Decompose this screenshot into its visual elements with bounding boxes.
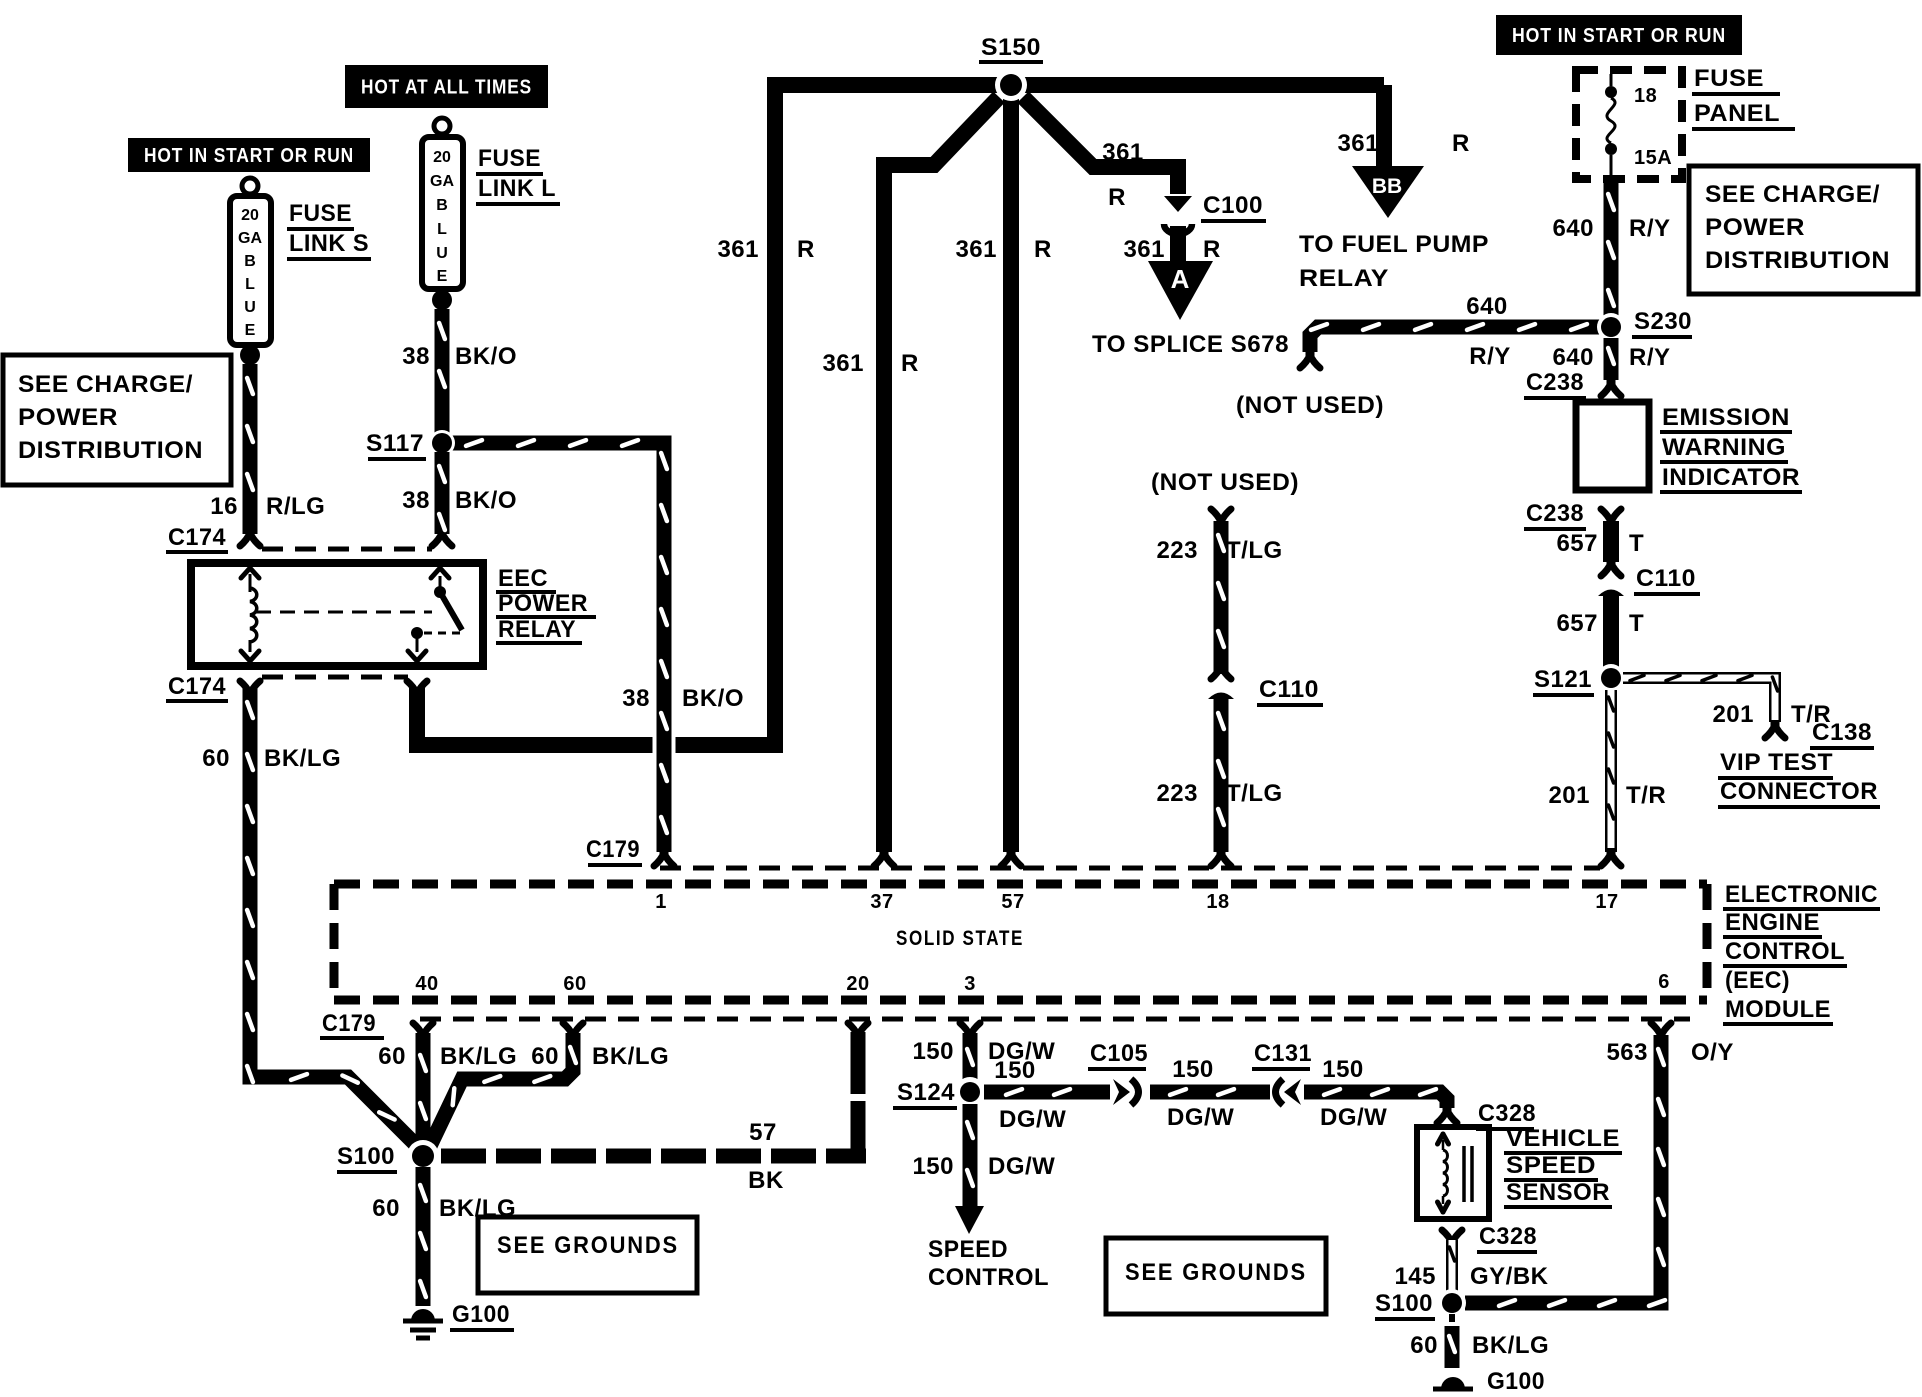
wire 60 BK/LG pin 40 to S100 [420, 1033, 426, 1143]
svg-text:ELECTRONIC: ELECTRONIC [1725, 881, 1878, 908]
connector C174 fork (60 BK/LG side) [240, 681, 260, 699]
label 563 O/Y [1606, 1039, 1733, 1066]
wire 150 DG/W C105 to C131 [1150, 1089, 1270, 1095]
label FUSE LINK L [476, 145, 560, 204]
svg-text:R: R [1108, 184, 1126, 211]
svg-text:T/R: T/R [1626, 782, 1666, 809]
svg-text:R: R [1452, 130, 1470, 157]
svg-text:SEE GROUNDS: SEE GROUNDS [1125, 1259, 1307, 1286]
svg-text:CONTROL: CONTROL [1725, 938, 1845, 965]
label DG/W (C105-C131) [1167, 1104, 1234, 1131]
label NOT USED (center) [1151, 469, 1299, 496]
connector fork (not used, right) [1300, 350, 1320, 368]
label C105 [1088, 1040, 1148, 1069]
label 150 (C131 right) [1322, 1056, 1364, 1083]
wire 361 R top bus (S150 to fuel pump branch) [767, 77, 1384, 93]
svg-text:SEE CHARGE/: SEE CHARGE/ [1705, 181, 1880, 208]
wire 657 T C110 to S121 [1603, 596, 1619, 668]
label pin 20 [846, 973, 869, 995]
svg-text:FUSE: FUSE [289, 200, 352, 227]
wire 60 BK/LG S100 to G100 (right) [1449, 1314, 1455, 1368]
wire 150 DG/W S124 to C105 [984, 1089, 1110, 1095]
wire 223 T/LG to C110 [1218, 521, 1224, 674]
labels 60 BK/LG 60 BK/LG (module) [378, 1043, 669, 1070]
svg-text:BB: BB [1372, 175, 1402, 198]
wire 150 DG/W pin 3 to S124 [967, 1033, 973, 1080]
svg-text:57: 57 [1001, 891, 1024, 913]
wire 640 R/Y S230 to C238 [1608, 338, 1614, 380]
svg-text:C100: C100 [1203, 192, 1263, 219]
svg-text:R: R [1034, 236, 1052, 263]
svg-text:640: 640 [1552, 344, 1594, 371]
label S124 [893, 1079, 957, 1108]
svg-text:O/Y: O/Y [1691, 1039, 1734, 1066]
svg-text:223: 223 [1156, 537, 1198, 564]
svg-text:GA: GA [430, 173, 454, 190]
svg-text:40: 40 [415, 973, 438, 995]
svg-text:BK/O: BK/O [682, 685, 744, 712]
label 201 T/R (C138 branch) [1712, 701, 1831, 728]
wire 145 GY/BK C328 to S100 [1449, 1240, 1454, 1294]
connector C174 fork (fuse link L side) [432, 528, 452, 546]
label 38 BK/O (above S117) [402, 343, 517, 370]
terminal ring above fuse link S [242, 178, 258, 194]
svg-text:R/Y: R/Y [1629, 344, 1671, 371]
svg-text:LINK L: LINK L [478, 175, 556, 202]
svg-text:C328: C328 [1478, 1100, 1536, 1127]
splice S100 junction (left) [407, 1140, 439, 1172]
svg-text:C238: C238 [1526, 369, 1584, 396]
wire 361 R S150 to EEC pin 57 [1003, 92, 1019, 852]
svg-text:BK/LG: BK/LG [592, 1043, 669, 1070]
svg-text:POWER: POWER [1705, 214, 1805, 241]
svg-text:361: 361 [1123, 236, 1165, 263]
svg-text:(NOT USED): (NOT USED) [1236, 392, 1384, 419]
wire 150 DG/W S124 to speed control [967, 1104, 973, 1206]
label C179 (top) [586, 836, 642, 865]
terminal ring above fuse link L [434, 118, 450, 134]
label DG/W (C131 right) [1320, 1104, 1387, 1131]
svg-text:657: 657 [1556, 530, 1598, 557]
wire 361 R S150 to C100 [1023, 97, 1178, 194]
fuse link S body (20 GA BLUE) [230, 196, 271, 345]
fuse 18 / 15A symbol [1605, 74, 1617, 176]
wire 38 BK/O S117 to C174 [439, 452, 445, 534]
connector fork EEC pin 60 [563, 1023, 583, 1041]
label EEC POWER RELAY [496, 565, 596, 643]
svg-text:BK/LG: BK/LG [440, 1043, 517, 1070]
label SOLID STATE [896, 927, 1024, 950]
svg-text:C174: C174 [168, 524, 226, 551]
svg-text:POWER: POWER [18, 404, 118, 431]
svg-text:DG/W: DG/W [1320, 1104, 1387, 1131]
svg-text:DG/W: DG/W [1167, 1104, 1234, 1131]
label 361 R (below C100) [1123, 236, 1220, 263]
connector fork EEC pin 17 [1601, 848, 1621, 866]
emission warning indicator box [1576, 402, 1649, 490]
label C100 [1201, 192, 1266, 221]
connector C328 fork (bottom) [1442, 1230, 1462, 1248]
wire 60 BK/LG relay to S100 [247, 688, 417, 1146]
svg-text:563: 563 [1606, 1039, 1648, 1066]
label C328 (top) [1476, 1100, 1536, 1129]
header box HOT IN START OR RUN (right) [1496, 15, 1742, 55]
svg-text:C105: C105 [1090, 1040, 1148, 1067]
svg-text:60: 60 [1410, 1332, 1438, 1359]
label 657 T (lower) [1556, 610, 1644, 637]
label C328 (bottom) [1477, 1223, 1537, 1252]
box SEE CHARGE/POWER DISTRIBUTION (left) [3, 355, 231, 485]
wire 150 DG/W C131 to C328 [1304, 1089, 1447, 1108]
wire 57 BK S100 to EEC pin 20 [441, 1030, 866, 1163]
svg-text:145: 145 [1394, 1263, 1436, 1290]
svg-text:S100: S100 [337, 1143, 395, 1170]
label S121 [1533, 666, 1594, 695]
svg-text:SEE GROUNDS: SEE GROUNDS [497, 1232, 679, 1259]
connector C110 (right) [1598, 558, 1624, 596]
connector C179 dashed line (bottom) [420, 1017, 1690, 1022]
svg-text:EEC: EEC [498, 565, 548, 592]
svg-text:G100: G100 [1487, 1368, 1545, 1392]
label 361 R (pin 57 wire) [955, 236, 1051, 263]
label 640 (not used branch) [1466, 293, 1508, 320]
label 150 DG/W (speed control) [912, 1153, 1055, 1180]
svg-text:S150: S150 [981, 34, 1041, 61]
svg-text:18: 18 [1634, 85, 1657, 107]
svg-text:150: 150 [912, 1038, 954, 1065]
wire 657 T C238 to C110 [1603, 521, 1619, 562]
svg-text:BK/O: BK/O [455, 487, 517, 514]
svg-text:BK/LG: BK/LG [1472, 1332, 1549, 1359]
svg-text:R: R [1203, 236, 1221, 263]
svg-text:C110: C110 [1259, 676, 1319, 703]
splice dot below fuse link S [240, 345, 260, 365]
svg-text:S117: S117 [366, 430, 424, 457]
svg-text:B: B [244, 253, 256, 270]
svg-text:R/LG: R/LG [266, 493, 325, 520]
svg-text:E: E [437, 268, 448, 285]
connector fork EEC pin 57 [1001, 848, 1021, 866]
label pin 17 [1595, 891, 1618, 913]
label FUSE LINK S [287, 200, 371, 259]
connector fork EEC pin 20 [848, 1023, 868, 1041]
label S150 [979, 34, 1043, 62]
label 18 (fuse) [1634, 85, 1657, 107]
svg-text:38: 38 [402, 487, 430, 514]
fuse link L body (20 GA BLUE) [422, 137, 463, 289]
connector fork EEC pin 40 [413, 1023, 433, 1041]
wire 38 BK/O S117 to EEC pin 1 [452, 440, 667, 852]
label FUSE PANEL [1692, 65, 1795, 129]
svg-text:R/Y: R/Y [1469, 343, 1511, 370]
svg-text:3: 3 [964, 973, 976, 995]
label pin 18 [1206, 891, 1229, 913]
svg-text:VIP TEST: VIP TEST [1720, 749, 1833, 776]
svg-text:38: 38 [402, 343, 430, 370]
label TO FUEL PUMP RELAY [1299, 231, 1489, 292]
svg-text:C179: C179 [586, 836, 640, 863]
connector C238 fork (bottom) [1601, 509, 1621, 527]
label pin 40 [415, 973, 438, 995]
label 38 BK/O (below S117) [402, 487, 517, 514]
svg-text:HOT AT ALL TIMES: HOT AT ALL TIMES [361, 77, 532, 99]
wire 361 R to fuel pump relay (drop) [1376, 85, 1392, 168]
svg-text:T: T [1629, 530, 1644, 557]
svg-text:SOLID STATE: SOLID STATE [896, 927, 1024, 950]
label G100 (right) [1487, 1368, 1545, 1395]
connector fork (not used, center) [1211, 509, 1231, 527]
label 15A (fuse) [1634, 147, 1672, 169]
arrow to speed control [955, 1206, 984, 1234]
svg-text:60: 60 [563, 973, 586, 995]
label 38 BK/O (near EEC pin 1) [622, 685, 744, 712]
connector C238 fork (top) [1601, 378, 1621, 396]
arrow A to splice S678 [1148, 261, 1213, 320]
splice S124 dot [955, 1077, 985, 1107]
splice dot below fuse link L [432, 290, 452, 310]
svg-text:T/LG: T/LG [1226, 780, 1283, 807]
wire 361 R S150 to relay switch (feed) [417, 92, 775, 745]
svg-text:T/LG: T/LG [1226, 537, 1283, 564]
connector fork EEC pin 18 [1211, 848, 1231, 866]
splice S230 dot [1597, 313, 1625, 341]
ground G100 (left) [403, 1309, 443, 1338]
svg-text:361: 361 [822, 350, 864, 377]
vehicle speed sensor box [1417, 1127, 1489, 1219]
splice S100 junction (right) [1438, 1289, 1466, 1317]
connector C174 fork (fuse link S side) [240, 528, 260, 546]
fuse panel dashed box [1576, 70, 1682, 179]
label C174 (top) [166, 524, 228, 552]
label 150 (S124 right) [994, 1057, 1036, 1084]
connector fork EEC pin 1 [654, 848, 674, 866]
splice S117 junction dot [429, 430, 455, 456]
connector C328 fork (top) [1437, 1105, 1457, 1123]
box SEE GROUNDS (left) [478, 1217, 697, 1293]
svg-text:C110: C110 [1636, 565, 1696, 592]
box SEE CHARGE/POWER DISTRIBUTION (right) [1689, 166, 1918, 294]
label NOT USED (right) [1236, 392, 1384, 419]
wire 60 BK/LG S100 to G100 (left) [420, 1167, 426, 1306]
svg-text:EMISSION: EMISSION [1662, 404, 1790, 431]
svg-text:640: 640 [1466, 293, 1508, 320]
svg-text:B: B [436, 197, 448, 214]
svg-text:E: E [245, 322, 256, 339]
label 223 T/LG (upper) [1156, 537, 1282, 564]
label TO SPLICE S678 [1092, 331, 1289, 358]
svg-text:6: 6 [1658, 971, 1670, 993]
vehicle speed sensor internals [1438, 1134, 1473, 1212]
svg-text:16: 16 [210, 493, 238, 520]
svg-text:RELAY: RELAY [1299, 265, 1389, 292]
label VIP TEST CONNECTOR [1718, 749, 1880, 807]
svg-text:SPEED: SPEED [1506, 1152, 1596, 1179]
svg-text:361: 361 [955, 236, 997, 263]
svg-text:20: 20 [241, 207, 259, 224]
svg-text:HOT IN START OR RUN: HOT IN START OR RUN [1512, 25, 1726, 47]
svg-text:L: L [437, 221, 447, 238]
svg-text:VEHICLE: VEHICLE [1506, 1125, 1620, 1152]
label ELECTRONIC ENGINE CONTROL (EEC) MODULE [1723, 881, 1880, 1024]
svg-text:(EEC): (EEC) [1725, 967, 1790, 994]
label pin 37 [870, 891, 893, 913]
label pin 3 [964, 973, 976, 995]
wire 640 R/Y fuse panel to S230 [1608, 180, 1614, 316]
label EMISSION WARNING INDICATOR [1660, 404, 1802, 492]
label S230 [1632, 308, 1692, 337]
svg-text:17: 17 [1595, 891, 1618, 913]
label 150 (C105-C131) [1172, 1056, 1214, 1083]
svg-text:LINK S: LINK S [289, 230, 369, 257]
svg-text:BK: BK [748, 1167, 784, 1194]
label pin 57 [1001, 891, 1024, 913]
svg-text:SPEED: SPEED [928, 1236, 1008, 1263]
svg-text:R/Y: R/Y [1629, 215, 1671, 242]
svg-text:SEE CHARGE/: SEE CHARGE/ [18, 371, 193, 398]
svg-text:GY/BK: GY/BK [1470, 1263, 1549, 1290]
connector C110 (center) [1208, 661, 1234, 699]
label 201 T/R (pin 17 wire) [1548, 782, 1666, 809]
svg-text:FUSE: FUSE [1694, 65, 1764, 92]
svg-text:15A: 15A [1634, 147, 1672, 169]
label 657 T (upper) [1556, 530, 1644, 557]
svg-text:C238: C238 [1526, 500, 1584, 527]
relay internal dashed link [256, 611, 432, 614]
svg-text:223: 223 [1156, 780, 1198, 807]
svg-text:GA: GA [238, 230, 262, 247]
label 361 R (left) [717, 236, 814, 263]
EEC power relay box [191, 563, 483, 666]
label C238 (bottom) [1524, 500, 1586, 529]
svg-text:60: 60 [378, 1043, 406, 1070]
svg-text:T: T [1629, 610, 1644, 637]
wire 640 R/Y S230 to not-used branch [1310, 324, 1601, 352]
wire 361 R C100 to splice arrow [1170, 226, 1186, 263]
svg-text:18: 18 [1206, 891, 1229, 913]
svg-text:60: 60 [372, 1195, 400, 1222]
svg-text:DG/W: DG/W [988, 1153, 1055, 1180]
svg-text:361: 361 [717, 236, 759, 263]
wire 563 O/Y EEC pin 6 to S100 (right) [1465, 1035, 1665, 1306]
svg-text:20: 20 [846, 973, 869, 995]
connector C138 fork [1765, 720, 1785, 738]
connector fork EEC pin 37 [874, 848, 894, 866]
connector C131 [1276, 1079, 1302, 1105]
label R/Y (not used branch) [1469, 343, 1511, 370]
svg-text:INDICATOR: INDICATOR [1662, 464, 1800, 491]
label S100 (left) [337, 1143, 397, 1172]
label R (below C100 branch) [1108, 184, 1126, 211]
svg-text:60: 60 [202, 745, 230, 772]
svg-text:HOT IN START OR RUN: HOT IN START OR RUN [144, 145, 354, 167]
label C179 (bottom) [320, 1010, 384, 1038]
connector C105 [1113, 1079, 1139, 1105]
svg-text:CONTROL: CONTROL [928, 1264, 1049, 1291]
svg-text:C138: C138 [1812, 719, 1872, 746]
svg-text:CONNECTOR: CONNECTOR [1720, 778, 1878, 805]
svg-text:S121: S121 [1534, 666, 1592, 693]
svg-text:G100: G100 [452, 1301, 510, 1328]
connector C174 dashed line (top) [262, 547, 432, 552]
ground G100 (right) [1433, 1377, 1473, 1397]
svg-text:150: 150 [1172, 1056, 1214, 1083]
svg-text:TO FUEL PUMP: TO FUEL PUMP [1299, 231, 1489, 258]
svg-text:1: 1 [655, 891, 667, 913]
svg-text:WARNING: WARNING [1662, 434, 1786, 461]
svg-text:57: 57 [749, 1119, 777, 1146]
svg-text:201: 201 [1712, 701, 1754, 728]
label pin 1 [655, 891, 667, 913]
label 361 R (pin 37 wire) [822, 350, 918, 377]
label 361 R (fuel pump branch) [1337, 130, 1469, 157]
label SPEED CONTROL [928, 1236, 1049, 1291]
label 57 BK [748, 1119, 784, 1194]
wire 223 T/LG C110 to EEC pin 18 [1218, 699, 1224, 852]
svg-text:DISTRIBUTION: DISTRIBUTION [1705, 247, 1890, 274]
svg-text:361: 361 [1102, 139, 1144, 166]
label 640 R/Y (fuse panel) [1552, 215, 1670, 242]
EEC module dashed box [334, 884, 1707, 1000]
svg-text:C179: C179 [322, 1010, 376, 1037]
svg-text:PANEL: PANEL [1694, 100, 1780, 127]
label 16 R/LG [210, 493, 325, 520]
label 60 BK/LG (below relay) [202, 745, 341, 772]
svg-text:L: L [245, 276, 255, 293]
svg-text:MODULE: MODULE [1725, 996, 1831, 1023]
label pin 60 [563, 973, 586, 995]
label S117 [366, 430, 426, 459]
svg-text:A: A [1171, 264, 1190, 294]
wire 38 BK/O fuse link L to S117 [439, 309, 445, 434]
svg-text:SENSOR: SENSOR [1506, 1179, 1610, 1206]
svg-text:BK/O: BK/O [455, 343, 517, 370]
svg-text:640: 640 [1552, 215, 1594, 242]
relay coil [241, 568, 259, 661]
svg-text:C328: C328 [1479, 1223, 1537, 1250]
svg-text:(NOT USED): (NOT USED) [1151, 469, 1299, 496]
svg-text:U: U [436, 245, 448, 262]
wire 361 R S150 to EEC pin 37 [884, 97, 999, 852]
label C131 [1252, 1040, 1312, 1069]
svg-text:150: 150 [994, 1057, 1036, 1084]
wire 60 BK/LG pin 60 to S100 [430, 1033, 576, 1146]
svg-text:S230: S230 [1634, 308, 1692, 335]
relay switch [408, 568, 462, 661]
svg-text:RELAY: RELAY [498, 616, 576, 643]
label 145 GY/BK [1394, 1263, 1548, 1290]
label pin 6 [1658, 971, 1670, 993]
label C138 [1810, 719, 1874, 748]
wire 16 R/LG fuse link S to C174 [247, 364, 253, 534]
header box HOT AT ALL TIMES [345, 65, 548, 108]
header box HOT IN START OR RUN (left) [128, 138, 370, 172]
box SEE GROUNDS (right) [1106, 1238, 1326, 1314]
svg-text:TO SPLICE S678: TO SPLICE S678 [1092, 331, 1289, 358]
label C110 (center) [1257, 676, 1323, 705]
connector C100 [1164, 196, 1192, 234]
wire 201 T/R S121 to C138 [1623, 675, 1778, 722]
label VEHICLE SPEED SENSOR [1504, 1125, 1622, 1207]
connector fork EEC pin 3 [960, 1023, 980, 1041]
svg-text:C131: C131 [1254, 1040, 1312, 1067]
svg-text:DISTRIBUTION: DISTRIBUTION [18, 437, 203, 464]
svg-text:R: R [797, 236, 815, 263]
label G100 (left) [450, 1301, 514, 1330]
svg-text:60: 60 [531, 1043, 559, 1070]
svg-text:R: R [901, 350, 919, 377]
label C174 (bottom) [166, 673, 228, 701]
splice S150 junction dot [995, 69, 1027, 101]
